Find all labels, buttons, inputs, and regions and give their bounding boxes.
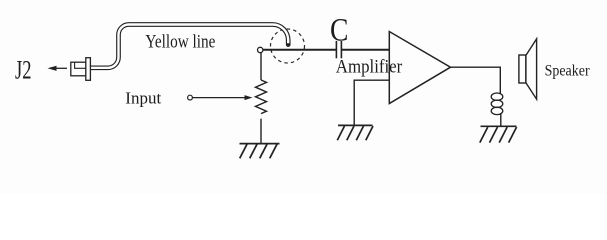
svg-text:Yellow line: Yellow line [145, 31, 215, 52]
svg-text:Amplifier: Amplifier [336, 57, 403, 78]
svg-text:J2: J2 [15, 56, 32, 85]
svg-text:Input: Input [125, 89, 161, 108]
svg-text:Speaker: Speaker [545, 62, 591, 79]
svg-text:C: C [330, 12, 348, 48]
